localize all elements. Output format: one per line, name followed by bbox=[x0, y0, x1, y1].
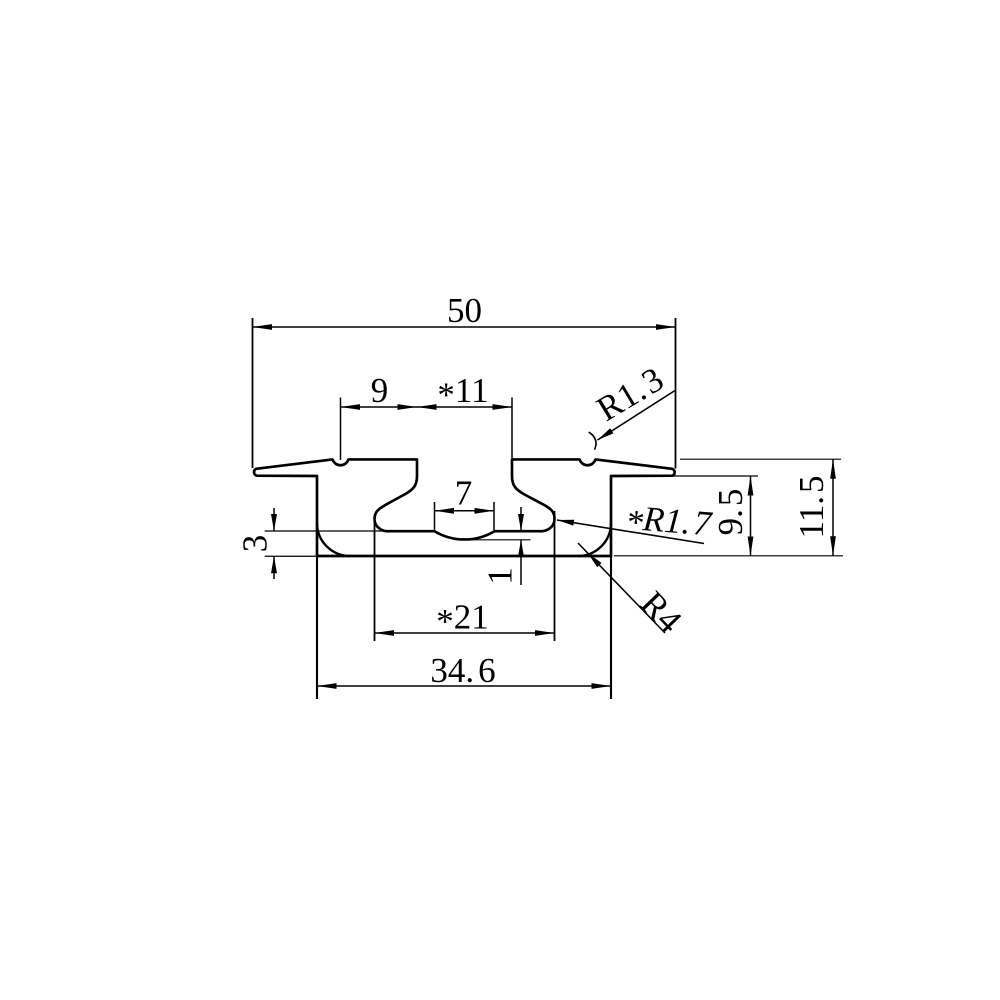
svg-text:34.6: 34.6 bbox=[430, 651, 495, 690]
svg-text:*21: *21 bbox=[436, 598, 489, 642]
svg-text:7: 7 bbox=[455, 474, 473, 513]
svg-text:9: 9 bbox=[371, 371, 389, 410]
svg-text:*11: *11 bbox=[437, 371, 488, 415]
svg-text:50: 50 bbox=[447, 291, 482, 330]
svg-text:11.5: 11.5 bbox=[792, 476, 831, 539]
svg-text:3: 3 bbox=[236, 535, 275, 553]
svg-text:9.5: 9.5 bbox=[711, 489, 750, 536]
svg-text:1: 1 bbox=[481, 567, 520, 585]
